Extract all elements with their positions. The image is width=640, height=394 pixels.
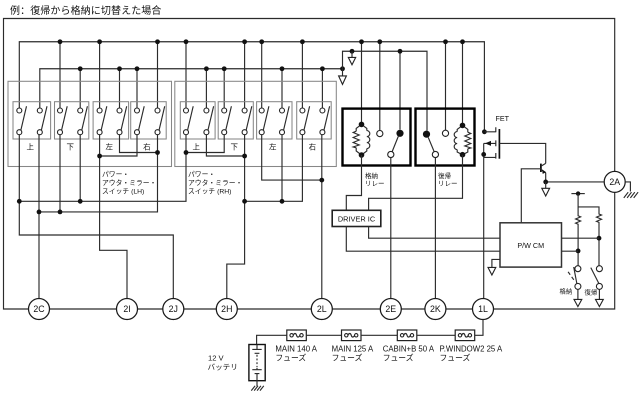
node +B tap bar — [571, 191, 584, 195]
svg-text:リレー: リレー — [365, 180, 385, 187]
switch pole box RH-up-L — [184, 106, 194, 135]
svg-text:左: 左 — [269, 141, 277, 151]
relay K1 NC contact — [377, 131, 383, 137]
wire Q1 emitter to 2A — [543, 173, 604, 185]
wire K1 coil to DRIVER IC — [346, 155, 361, 210]
svg-text:CABIN+B 50 A: CABIN+B 50 A — [383, 344, 435, 353]
svg-text:2A: 2A — [609, 177, 620, 187]
transistor Q1 — [541, 163, 546, 174]
P/W CM module U2 — [500, 223, 562, 267]
svg-text:バッテリ: バッテリ — [208, 362, 238, 371]
svg-text:スイッチ (LH): スイッチ (LH) — [102, 188, 144, 196]
switch box LH-right — [131, 102, 167, 152]
switch SW2 (return 復帰) — [591, 266, 603, 290]
svg-text:MAIN 140 A: MAIN 140 A — [275, 344, 317, 353]
switch pole box LH-down-L — [58, 106, 68, 135]
wire P/W CM right stub 1 — [562, 237, 600, 239]
relay K2 NC contact — [442, 130, 448, 136]
switch SW1 (storage 格納) — [567, 266, 581, 290]
switch box LH-up — [13, 102, 51, 152]
svg-text:2C: 2C — [33, 304, 45, 314]
switch pole box RH-down-R — [242, 106, 252, 135]
relay K2 common contact — [423, 131, 434, 152]
svg-text:フューズ: フューズ — [440, 352, 471, 362]
relay K1 NO contact — [388, 151, 394, 157]
svg-text:2I: 2I — [123, 304, 130, 314]
wire P/W CM ground stub — [492, 259, 500, 267]
label battery 12V — [208, 354, 238, 372]
switch pole box LH-left-L — [97, 106, 107, 135]
svg-text:2E: 2E — [385, 304, 396, 314]
switch pole box LH-up-R — [37, 106, 47, 135]
svg-text:2H: 2H — [221, 304, 232, 314]
resistor R1 — [576, 194, 581, 266]
transistor FET Q2 (MOSFET) — [484, 127, 500, 158]
wire net-B (LH up-R / down-L / left-R / right-R to 2C) — [37, 135, 160, 299]
ground chassis at 2A — [624, 182, 638, 198]
ground chassis at battery — [251, 381, 263, 391]
arrow connector A6 (below SW2) — [596, 289, 604, 306]
switch pole box RH-left-R — [280, 106, 290, 135]
node 2E connector — [380, 299, 401, 320]
svg-text:P/W CM: P/W CM — [517, 241, 544, 250]
wire F1 to F2 — [306, 334, 341, 336]
wire bottom bus segments — [49, 308, 473, 310]
svg-text:復帰: 復帰 — [585, 287, 598, 296]
svg-text:スイッチ (RH): スイッチ (RH) — [188, 188, 231, 196]
wire DRIVER IC out1 to P/W CM — [369, 227, 500, 239]
arrow connector A3 (down triangle below Q1 emitter) — [542, 182, 550, 196]
svg-text:アウタ・ミラー・: アウタ・ミラー・ — [102, 178, 156, 187]
arrow connector A2 (down triangle) — [339, 69, 347, 85]
switch pole box LH-down-R — [78, 106, 88, 135]
label F4 — [440, 344, 503, 362]
svg-text:フューズ: フューズ — [383, 352, 414, 362]
svg-text:2J: 2J — [169, 304, 178, 314]
arrow connector A4 (down triangle below P/W CM) — [488, 267, 496, 275]
wire net-C (LH left-L / right-L to 2I) — [97, 135, 137, 299]
node 1L connector — [473, 299, 494, 320]
node 2I connector — [117, 299, 138, 320]
svg-text:右: 右 — [143, 141, 151, 151]
arrow connector A5 (below SW1) — [574, 289, 582, 306]
svg-text:右: 右 — [309, 141, 317, 151]
switch box RH-up — [180, 102, 215, 152]
relay K2 box (return relay) — [416, 109, 475, 166]
switch pole box LH-right-L — [135, 106, 145, 135]
switch box RH-left — [257, 102, 292, 152]
switch pole box LH-left-R — [117, 106, 127, 135]
svg-text:FET: FET — [496, 114, 510, 123]
svg-text:フューズ: フューズ — [275, 352, 306, 362]
svg-text:下: 下 — [66, 142, 74, 151]
svg-text:復帰: 復帰 — [438, 171, 452, 180]
svg-text:2K: 2K — [430, 304, 441, 314]
fuse F1 MAIN 140A — [287, 330, 307, 341]
node 2H connector — [216, 299, 237, 320]
relay K1 common contact — [392, 130, 403, 152]
wire K1 NO contact to 2E — [390, 158, 392, 299]
svg-text:アウタ・ミラー・: アウタ・ミラー・ — [188, 178, 242, 187]
node 2K connector — [425, 299, 446, 320]
wire F2 to F3 — [361, 334, 397, 336]
svg-text:格納: 格納 — [560, 287, 573, 296]
wire K2 NO contact to 2K — [434, 158, 436, 299]
wire P/W CM right stub 2 — [562, 250, 579, 252]
wire 2A to bottom bus — [493, 193, 615, 309]
wire bus1 feed stubs with junctions — [58, 39, 465, 130]
wire FET gate to Q1 collector — [499, 143, 545, 163]
wire loop 2C to 2A (outer) — [4, 19, 615, 310]
relay K2 NO contact — [432, 151, 438, 157]
fuse F3 CABIN+B 50A — [397, 330, 417, 341]
switch pole box LH-up-L — [17, 106, 27, 135]
svg-text:P.WINDOW2 25 A: P.WINDOW2 25 A — [440, 344, 503, 353]
switch pole box RH-right-L — [300, 106, 310, 135]
node 2L connector — [311, 299, 332, 320]
wire battery to fuse chain — [257, 335, 287, 344]
svg-text:フューズ: フューズ — [332, 352, 363, 362]
arrow connector A1 (down triangle) — [348, 51, 355, 65]
switch box LH-left — [93, 102, 129, 152]
relay K1 coil — [353, 122, 370, 158]
wire F3 to F4 — [417, 334, 455, 336]
battery BT1 12V — [249, 345, 265, 381]
svg-text:下: 下 — [230, 142, 238, 151]
RH mirror switch outer box — [175, 81, 336, 166]
svg-text:1L: 1L — [478, 304, 488, 314]
fuse F4 P.WINDOW2 25A — [455, 330, 475, 341]
DRIVER IC U1 — [332, 210, 381, 226]
wire net-E (RH left-L / right-R to 2L) — [262, 135, 324, 299]
wire net-D (RH up-R / down-R / left-R / right-L to 2H) — [206, 135, 302, 299]
wire Q1 base to P/W CM — [521, 169, 541, 223]
resistor R2 — [578, 207, 601, 266]
wire DRIVER IC out2 to P/W CM — [346, 227, 500, 252]
switch box RH-right — [297, 102, 332, 152]
relay K2 coil — [454, 123, 471, 158]
wire bus1 (top supply rail) — [19, 42, 487, 134]
label F2 — [332, 344, 374, 362]
label F3 — [383, 344, 435, 362]
switch pole box RH-right-R — [320, 106, 330, 135]
switch pole box RH-up-R — [204, 106, 214, 135]
svg-text:MAIN 125 A: MAIN 125 A — [332, 344, 374, 353]
wire bus2 (second supply rail) — [40, 66, 345, 108]
wire FET source to 1L — [481, 143, 486, 299]
fuse F2 MAIN 125A — [342, 330, 362, 341]
label relay K2 — [438, 171, 458, 188]
switch pole box RH-left-L — [259, 106, 269, 135]
switch pole box RH-down-L — [222, 106, 232, 135]
switch pole box LH-right-R — [155, 106, 165, 135]
wire bus3 (relay common rail) — [343, 49, 428, 131]
svg-text:2L: 2L — [317, 304, 327, 314]
svg-text:パワー・: パワー・ — [188, 170, 215, 178]
svg-text:DRIVER IC: DRIVER IC — [338, 215, 376, 224]
wire F4 to 1L — [475, 320, 483, 336]
relay K1 box (storage relay) — [343, 109, 411, 166]
wire net-A (LH up-L / LH down-R / RH up-L to 2J) — [17, 135, 224, 299]
node 2A connector — [604, 171, 625, 192]
label F1 — [275, 344, 317, 362]
switch box LH-down — [55, 102, 89, 152]
svg-text:12 V: 12 V — [208, 354, 225, 363]
svg-text:格納: 格納 — [365, 171, 378, 180]
svg-text:例：復帰から格納に切替えた場合: 例：復帰から格納に切替えた場合 — [10, 4, 162, 17]
switch box RH-down — [218, 102, 253, 152]
label relay K1 — [365, 171, 385, 188]
svg-text:リレー: リレー — [438, 180, 458, 187]
svg-text:パワー・: パワー・ — [102, 170, 129, 178]
svg-text:左: 左 — [106, 141, 114, 151]
node 2J connector — [163, 299, 184, 320]
node 2C connector — [29, 299, 50, 320]
svg-text:上: 上 — [192, 142, 200, 151]
LH mirror switch outer box — [8, 81, 172, 166]
wire bus2 feed stubs with junctions — [78, 66, 325, 108]
wire K2 coil to DRIVER IC — [369, 155, 463, 211]
svg-text:上: 上 — [27, 142, 35, 151]
